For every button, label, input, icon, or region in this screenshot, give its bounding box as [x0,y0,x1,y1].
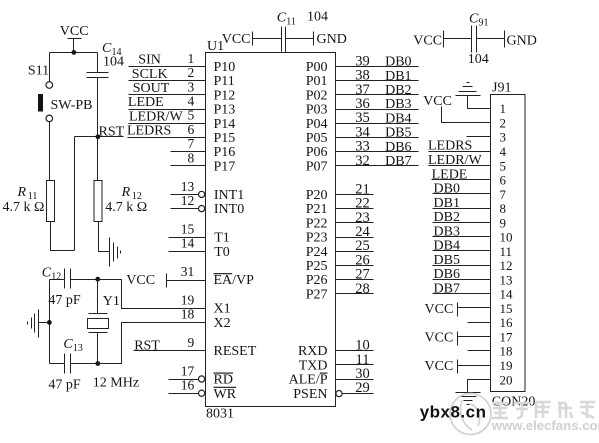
svg-text:P14: P14 [214,117,236,132]
value 4.7 kOhm R11 [3,200,45,215]
svg-text:104: 104 [307,10,328,25]
svg-text:C: C [63,337,73,352]
label VCC at EA/VP [126,273,155,288]
wire J91 pin10 DB3 [433,236,491,238]
svg-text:7: 7 [188,136,195,151]
label VCC J91 pin2 [423,94,452,109]
svg-text:DB2: DB2 [385,83,411,98]
watermark ybx8.cn [420,402,487,421]
label VCC top-left [60,24,89,39]
svg-text:P11: P11 [214,74,235,89]
svg-text:DB7: DB7 [385,154,411,169]
svg-text:P03: P03 [306,103,328,118]
value 104 C91 [468,52,489,67]
svg-text:91: 91 [479,18,489,29]
net label SCLK [132,67,168,82]
power bar VCC J91 pin15 [458,303,491,317]
junction X2 node [95,361,100,366]
wire pin2 SCLK [129,80,206,82]
svg-text:VCC: VCC [423,94,452,109]
svg-text:EA/VP: EA/VP [214,273,255,288]
svg-text:DB5: DB5 [434,253,460,268]
wire J91 pin3 stub [467,136,491,138]
junction ground node [47,320,52,325]
wire J91 pin6 LEDE [432,179,491,181]
svg-text:LEDR/W: LEDR/W [129,109,183,124]
svg-text:14: 14 [500,287,514,302]
wire pin33 P06 DB6 [336,151,419,153]
svg-text:P01: P01 [306,74,328,89]
wire C14 to R12 [97,137,99,181]
wire R11 bottom to RST riser [51,222,75,251]
wire pin37 P02 DB2 [336,94,419,96]
svg-text:12 MHz: 12 MHz [93,376,139,391]
resistor R12 [94,181,102,222]
resistor R11 [47,181,55,222]
wire pin28 P27 [336,293,374,295]
label GND at C91 [507,33,537,48]
svg-text:5: 5 [188,108,195,123]
svg-text:LEDE: LEDE [128,95,164,110]
svg-text:3: 3 [500,130,507,145]
wire X1 to crystal top [98,280,206,314]
svg-text:DB4: DB4 [385,111,411,126]
svg-text:GND: GND [507,33,537,48]
svg-text:P04: P04 [306,117,328,132]
svg-text:P25: P25 [306,259,328,274]
wire X2 to crystal bottom [98,323,206,364]
wire pin5 LEDR/W [129,123,206,125]
wire pin6 LEDRS [128,137,206,139]
wire J91 pin12 DB5 [433,265,491,267]
svg-text:WR: WR [214,387,237,402]
svg-text:P05: P05 [306,131,328,146]
svg-text:R: R [121,185,131,200]
svg-text:P00: P00 [306,60,328,75]
svg-text:P06: P06 [306,145,328,160]
svg-text:104: 104 [103,55,124,70]
svg-text:11: 11 [286,17,296,28]
svg-text:DB4: DB4 [434,239,460,254]
svg-text:VCC: VCC [413,33,442,48]
svg-text:15: 15 [181,222,195,237]
svg-text:DB3: DB3 [385,97,411,112]
wire pin3 SOUT [129,94,206,96]
svg-text:5: 5 [500,158,507,173]
svg-text:R: R [17,185,27,200]
svg-text:18: 18 [181,307,195,322]
svg-text:DB5: DB5 [385,126,411,141]
wire J91 pin13 DB6 [433,279,491,281]
svg-text:16: 16 [181,378,195,393]
svg-text:SIN: SIN [138,52,161,67]
net labels DB0-DB7 at U1 [385,55,411,169]
svg-text:14: 14 [181,236,195,251]
label R11 [17,185,38,202]
wire J91 pin4 LEDRS [429,151,491,153]
pin numbers right of U1 [355,53,370,396]
value 47 pF C13 [48,378,81,393]
wire pin34 P05 DB5 [336,137,419,139]
svg-text:104: 104 [468,52,489,67]
svg-text:LEDE: LEDE [432,167,468,182]
svg-text:T1: T1 [214,231,230,246]
svg-text:GND: GND [317,32,347,47]
junction VCC node [72,50,77,55]
net label LEDE J91 [432,167,468,182]
svg-text:4.7 k Ω: 4.7 k Ω [105,200,147,215]
svg-text:DB2: DB2 [434,210,460,225]
value 12 MHz Y1 [93,376,139,391]
value 4.7 kOhm R12 [105,200,147,215]
svg-text:SW-PB: SW-PB [51,98,93,113]
net label RST at RESET [134,338,160,353]
capacitor C12 [50,269,98,289]
label C11 [277,11,296,28]
capacitor C91 [444,26,505,53]
svg-text:DB6: DB6 [434,267,460,282]
svg-text:13: 13 [181,179,195,194]
net label LEDE [128,95,164,110]
wire J91 pin8 DB1 [433,208,491,210]
svg-text:RST: RST [99,125,125,140]
svg-text:47 pF: 47 pF [48,293,81,308]
svg-text:19: 19 [181,293,195,308]
svg-text:P17: P17 [214,159,236,174]
wire pin30 ALE/P [336,379,374,381]
svg-text:6: 6 [188,122,195,137]
ground left of crystal [28,310,50,338]
svg-text:P26: P26 [306,273,328,288]
svg-text:INT0: INT0 [214,202,244,217]
net label SOUT [133,81,170,96]
wire pin29 PSEN [336,391,374,397]
svg-text:10: 10 [500,230,513,245]
svg-text:C: C [277,11,287,26]
watermark CJK text [492,402,595,418]
wire pin13 INT1 [171,191,205,197]
svg-text:X2: X2 [214,316,231,331]
label Y1 [103,294,120,309]
wire J91 pin20 to ground [468,380,491,393]
power bar VCC J91 pin17 [458,332,491,346]
wire pin10 RXD [336,350,374,352]
wire J91 pin18 stub [468,350,491,352]
svg-text:13: 13 [73,343,83,354]
connector J91 body [491,95,526,392]
svg-text:1: 1 [188,51,195,66]
svg-text:LEDRS: LEDRS [428,139,472,154]
svg-text:11: 11 [500,244,513,259]
svg-text:VCC: VCC [425,302,454,317]
svg-text:ybx8.cn: ybx8.cn [420,402,487,421]
svg-text:12: 12 [51,272,61,283]
svg-text:4: 4 [188,94,195,109]
wire pin7 [171,151,206,153]
wire pin12 INT0 [171,206,205,212]
svg-text:Y1: Y1 [103,294,120,309]
wire pin22 P21 [336,208,374,210]
overline RD [214,372,234,374]
label GND at C11 [317,32,347,47]
svg-text:PSEN: PSEN [293,387,327,402]
wire pin36 P03 DB3 [336,109,419,111]
svg-text:P16: P16 [214,145,236,160]
svg-text:12: 12 [500,258,513,273]
label VCC J91 pin15 [425,302,454,317]
wire pin17 RD [169,376,205,382]
label J91 [492,81,511,96]
label C91 [469,12,489,29]
svg-text:DB0: DB0 [434,182,460,197]
svg-text:RST: RST [134,338,160,353]
svg-text:12: 12 [181,193,195,208]
svg-text:ALE/P: ALE/P [289,373,328,388]
U1 internal pin names left column [214,60,257,402]
power flag VCC at EA/VP [167,274,206,288]
svg-text:P02: P02 [306,88,328,103]
wire VCC node to S11 and C14 [50,52,98,54]
J91 pin numbers 1-20 [500,101,514,387]
overline WR [214,386,237,388]
label U1 [207,39,224,54]
svg-text:9: 9 [500,215,507,230]
wire pin15 T1 [169,237,206,239]
svg-text:C: C [469,12,479,27]
value 104 C11 [307,10,328,25]
svg-text:RD: RD [214,373,233,388]
svg-text:DB7: DB7 [434,281,460,296]
crystal Y1 [88,314,109,364]
svg-text:19: 19 [500,358,513,373]
svg-text:SOUT: SOUT [133,81,170,96]
svg-text:P20: P20 [306,188,328,203]
wire pin14 T0 [169,251,206,253]
net labels DB0-DB7 J91 [434,182,460,297]
svg-text:P24: P24 [306,245,328,260]
svg-text:29: 29 [355,380,370,396]
svg-text:28: 28 [355,281,370,297]
wire R12 bottom to ground [99,222,110,252]
svg-text:13: 13 [500,272,513,287]
label R12 [121,185,142,202]
svg-text:31: 31 [181,264,195,279]
net label SIN [138,52,161,67]
wire pin16 WR [169,390,205,396]
label VCC J91 pin17 [425,331,454,346]
svg-text:VCC: VCC [425,331,454,346]
wire pin24 P23 [336,237,374,239]
label C13 [63,337,83,354]
svg-text:8031: 8031 [206,407,234,422]
label C12 [42,266,62,283]
junction RST node [96,134,101,139]
svg-text:VCC: VCC [425,359,454,374]
wire pin11 TXD [336,364,374,366]
wire J91 pin5 LEDR/W [429,165,491,167]
svg-text:4: 4 [500,144,507,159]
svg-text:P15: P15 [214,131,236,146]
overline P of ALE/P [320,372,328,374]
power flag VCC top-left [68,39,82,53]
wire left column C12 to C13 [49,280,51,364]
svg-text:P27: P27 [306,287,328,302]
svg-text:DB1: DB1 [385,69,411,84]
svg-text:4.7 k Ω: 4.7 k Ω [3,200,45,215]
power bar VCC J91 pin19 [458,360,491,374]
svg-text:6: 6 [500,173,507,188]
wire pin25 P24 [336,251,374,253]
svg-text:DB6: DB6 [385,140,411,155]
wire VCC to J91 pin2 [442,107,491,123]
svg-text:P22: P22 [306,216,328,231]
svg-text:DB3: DB3 [434,224,460,239]
watermark www.elecfans.com [491,418,599,433]
U1 internal pin names right column [289,60,328,402]
svg-text:8: 8 [188,150,195,165]
svg-text:X1: X1 [214,302,231,317]
svg-text:P21: P21 [306,202,328,217]
svg-text:VCC: VCC [222,32,251,47]
svg-text:www.elecfans.com: www.elecfans.com [491,418,599,433]
svg-text:P23: P23 [306,231,328,246]
earth ground below J91 [456,393,481,405]
svg-text:3: 3 [188,79,195,94]
net label LEDRS [127,124,171,139]
svg-text:T0: T0 [214,245,230,260]
svg-text:VCC: VCC [126,273,155,288]
wire pin39 P00 DB0 [336,66,419,68]
wire pin1 SIN [129,66,206,68]
value 47 pF C12 [48,293,81,308]
earth ground above J91 [456,83,491,109]
svg-text:15: 15 [500,301,513,316]
label C14 [102,41,122,58]
label CON20 [492,395,536,410]
svg-text:P13: P13 [214,103,236,118]
wire pin27 P26 [336,279,374,281]
label VCC at C91 [413,33,442,48]
svg-text:P12: P12 [214,88,236,103]
svg-text:2: 2 [500,116,507,131]
wire RST net [75,137,124,251]
svg-text:SCLK: SCLK [132,67,168,82]
svg-text:17: 17 [500,330,514,345]
value 104 C14 [103,55,124,70]
net label RST top [99,125,125,140]
svg-text:32: 32 [355,153,370,169]
svg-text:1: 1 [500,101,507,116]
svg-text:8: 8 [500,201,507,216]
label SW-PB [51,98,93,113]
label VCC at C11 [222,32,251,47]
svg-text:J91: J91 [492,81,511,96]
capacitor C14 [87,53,109,137]
wire J91 pin9 DB2 [433,222,491,224]
svg-text:P10: P10 [214,60,236,75]
wire J91 pin14 DB7 [433,293,491,295]
svg-text:INT1: INT1 [214,188,244,203]
svg-text:16: 16 [500,315,514,330]
svg-text:LEDRS: LEDRS [127,124,171,139]
overline EA [214,273,233,275]
net label LEDRS J91 [428,139,472,154]
wire pin38 P01 DB1 [336,80,419,82]
svg-text:2: 2 [188,65,195,80]
label S11 [28,63,49,78]
svg-text:LEDR/W: LEDR/W [428,153,482,168]
wire pin35 P04 DB4 [336,123,419,125]
capacitor C13 [50,354,98,374]
switch S11 SW-PB [38,53,52,181]
svg-text:S11: S11 [28,63,49,78]
net label LEDR/W J91 [428,153,482,168]
svg-text:RXD: RXD [298,344,328,359]
wire RST to RESET pin9 [134,350,206,352]
label 8031 [206,407,234,422]
junction X1 node [95,277,100,282]
wire pin4 LEDE [129,109,206,111]
svg-text:47 pF: 47 pF [48,378,81,393]
wire J91 pin16 stub [468,322,491,324]
capacitor C11 [253,27,314,53]
wire pin21 P20 [336,194,374,196]
wire pin8 [171,165,206,167]
label VCC J91 pin19 [425,359,454,374]
svg-text:18: 18 [500,344,513,359]
svg-text:VCC: VCC [60,24,89,39]
IC U1 8031 body [206,53,336,407]
svg-text:P07: P07 [306,159,328,174]
net label LEDR/W [129,109,183,124]
svg-text:17: 17 [181,364,195,379]
svg-text:RESET: RESET [214,344,257,359]
svg-text:TXD: TXD [299,358,328,373]
watermark logo circle elecfans [450,394,491,435]
svg-text:DB1: DB1 [434,196,460,211]
svg-text:7: 7 [500,187,507,202]
wire J91 pin7 DB0 [433,193,491,195]
svg-text:DB0: DB0 [385,55,411,70]
svg-text:C: C [42,266,52,281]
svg-text:20: 20 [500,372,513,387]
pin numbers left of U1 [181,51,195,393]
ground below R12 [110,238,121,267]
wire pin23 P22 [336,222,374,224]
wire J91 pin11 DB4 [433,250,491,252]
wire pin26 P25 [336,265,374,267]
wire pin32 P07 DB7 [336,165,419,167]
svg-text:9: 9 [188,335,195,350]
